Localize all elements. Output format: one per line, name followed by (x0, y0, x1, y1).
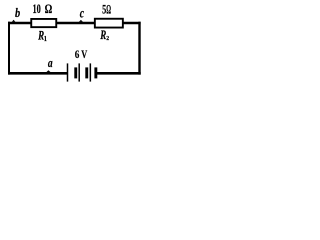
resistor R1 box (31, 19, 56, 27)
node c tick (79, 20, 83, 22)
battery BT1 cell3 long plate (89, 63, 91, 81)
node a tick (46, 70, 51, 72)
wire right side (138, 22, 140, 75)
battery BT1 cell2 short plate (85, 67, 88, 78)
battery BT1 cell2 long plate (78, 63, 80, 81)
svg-text:b: b (15, 6, 20, 20)
svg-text:5: 5 (102, 3, 106, 17)
svg-text:6: 6 (75, 49, 80, 61)
wire bottom right (battery to corner) (96, 72, 141, 75)
wire left side (8, 22, 10, 75)
resistor R2 box (95, 19, 123, 28)
wire top (node b - node c - top right corner) (8, 22, 141, 25)
svg-text:V: V (81, 49, 88, 62)
svg-text:Ω: Ω (106, 3, 111, 17)
node b tick (12, 20, 16, 22)
svg-text:a: a (48, 57, 53, 70)
svg-text:2: 2 (106, 36, 109, 42)
svg-text:10: 10 (33, 3, 41, 17)
svg-text:Ω: Ω (45, 3, 53, 17)
wire bottom left (corner to battery) (8, 72, 67, 75)
battery BT1 cell1 long plate (67, 63, 69, 81)
battery BT1 cell1 short plate (74, 67, 77, 78)
svg-text:c: c (80, 5, 85, 21)
svg-text:1: 1 (44, 36, 48, 43)
battery BT1 cell3 short plate (94, 67, 97, 78)
